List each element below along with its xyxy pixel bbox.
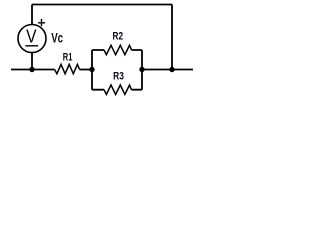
node A left of parallel pair <box>89 67 94 72</box>
node B right of parallel pair <box>139 67 144 72</box>
wire parallel box right vertical <box>141 50 143 90</box>
svg-text:V: V <box>26 26 36 46</box>
resistor R1 <box>55 64 80 73</box>
node source junction <box>29 67 34 72</box>
wire R2 branch leads <box>92 49 142 51</box>
wire source bottom lead <box>31 53 33 70</box>
wire parallel box left vertical <box>91 50 93 90</box>
voltage source Vc <box>18 25 46 53</box>
svg-text:Vc: Vc <box>51 30 63 46</box>
svg-text:R3: R3 <box>113 70 124 82</box>
wire source top lead <box>31 5 33 25</box>
node right return junction <box>169 67 174 72</box>
resistor R2 <box>104 45 132 54</box>
svg-text:R1: R1 <box>63 51 73 63</box>
wire right vertical return <box>171 5 173 70</box>
wire top horizontal <box>32 4 172 6</box>
resistor R3 <box>104 85 132 94</box>
svg-text:R2: R2 <box>113 30 124 42</box>
plus sign polarity <box>38 19 45 26</box>
wire R1 to node A <box>80 69 93 71</box>
wire R3 branch leads <box>92 89 142 91</box>
wire node B to right <box>142 69 193 71</box>
wire bottom left stub <box>11 69 55 71</box>
